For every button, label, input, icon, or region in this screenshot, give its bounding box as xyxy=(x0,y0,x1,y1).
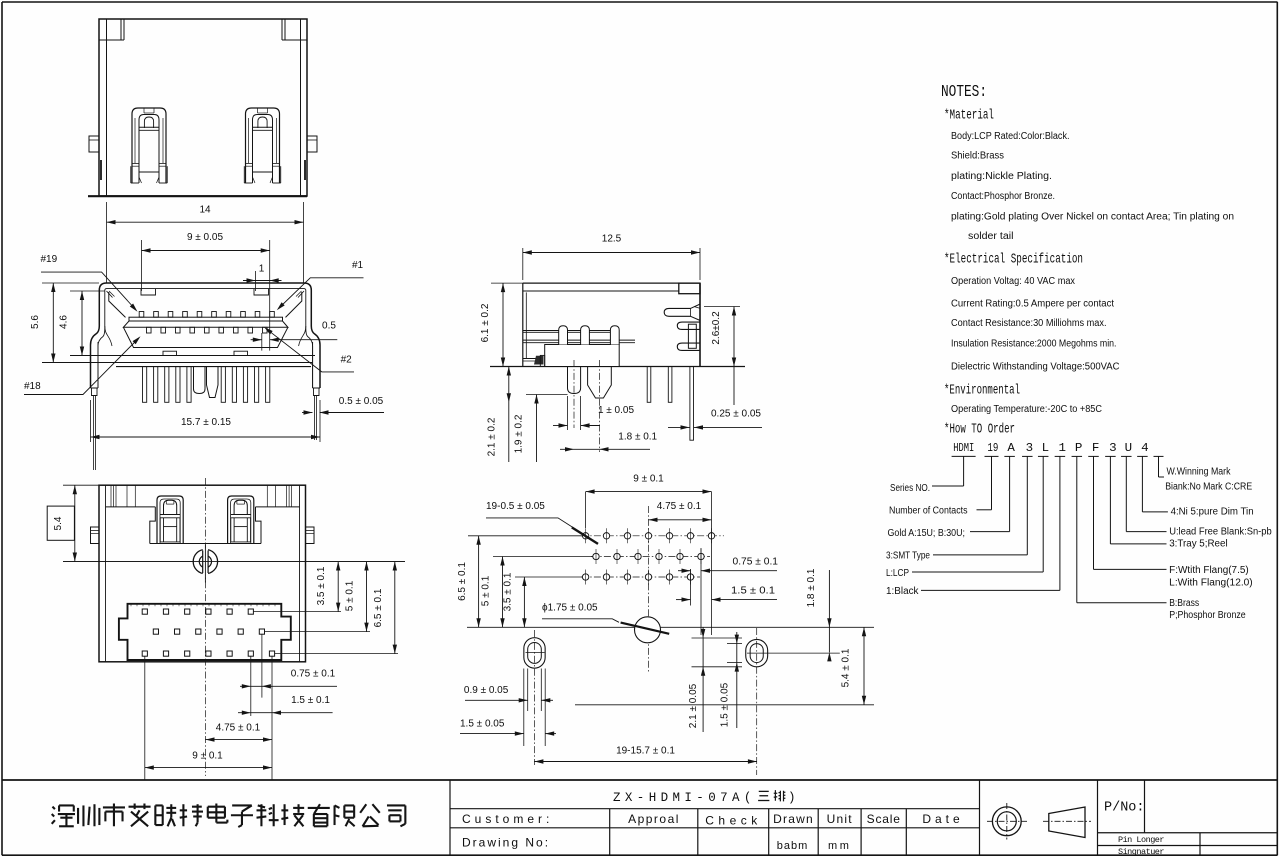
svg-text:L: L xyxy=(1042,442,1050,455)
svg-text:ZX-HDMI-07A(: ZX-HDMI-07A( xyxy=(613,791,756,805)
svg-text:NOTES:: NOTES: xyxy=(941,82,987,101)
svg-text:1 ± 0.05: 1 ± 0.05 xyxy=(598,405,635,416)
svg-text:Approal: Approal xyxy=(628,812,680,826)
svg-text:L:LCP: L:LCP xyxy=(886,568,909,579)
svg-text:Series NO.: Series NO. xyxy=(890,483,930,494)
svg-text:1: 1 xyxy=(259,264,265,275)
svg-text:A: A xyxy=(1007,442,1015,455)
svg-text:1.9 ± 0.2: 1.9 ± 0.2 xyxy=(514,414,525,453)
svg-text:*Environmental: *Environmental xyxy=(944,383,1020,399)
svg-text:2.6±0.2: 2.6±0.2 xyxy=(711,311,722,345)
svg-text:0.75 ± 0.1: 0.75 ± 0.1 xyxy=(291,669,336,680)
svg-text:F: F xyxy=(1092,442,1100,455)
svg-text:Gold A:15U; B:30U;: Gold A:15U; B:30U; xyxy=(888,528,966,539)
svg-text:5 ± 0.1: 5 ± 0.1 xyxy=(481,575,492,606)
svg-text:5.6: 5.6 xyxy=(30,315,41,329)
svg-text:Dielectric Withstanding Voltag: Dielectric Withstanding Voltage:500VAC xyxy=(951,362,1120,373)
svg-text:#2: #2 xyxy=(341,355,353,366)
svg-text:): ) xyxy=(788,791,796,805)
svg-text:Drawing No:: Drawing No: xyxy=(462,836,550,850)
svg-text:6.5 ± 0.1: 6.5 ± 0.1 xyxy=(457,562,468,601)
svg-text:Biank:No Mark C:CRE: Biank:No Mark C:CRE xyxy=(1165,482,1252,493)
svg-text:15.7 ± 0.15: 15.7 ± 0.15 xyxy=(181,417,231,428)
svg-text:2.1 ± 0.2: 2.1 ± 0.2 xyxy=(487,417,498,456)
svg-text:6.1 ± 0.2: 6.1 ± 0.2 xyxy=(480,303,491,342)
svg-text:4: 4 xyxy=(1141,442,1149,455)
svg-text:ϕ1.75 ± 0.05: ϕ1.75 ± 0.05 xyxy=(542,603,598,614)
svg-text:B:Brass: B:Brass xyxy=(1169,598,1199,609)
svg-text:mm: mm xyxy=(828,840,851,852)
svg-text:Shield:Brass: Shield:Brass xyxy=(951,151,1004,162)
svg-text:Check: Check xyxy=(705,814,762,828)
svg-text:P/No:: P/No: xyxy=(1104,801,1145,816)
svg-text:1: 1 xyxy=(1059,442,1067,455)
svg-text:#19: #19 xyxy=(41,254,58,265)
svg-text:U: U xyxy=(1125,442,1133,455)
svg-text:9 ± 0.1: 9 ± 0.1 xyxy=(192,751,223,762)
svg-text:1.8 ± 0.1: 1.8 ± 0.1 xyxy=(806,568,817,607)
svg-text:babm: babm xyxy=(777,840,809,852)
svg-text:L:With Flang(12.0): L:With Flang(12.0) xyxy=(1169,578,1253,589)
svg-text:12.5: 12.5 xyxy=(602,234,622,245)
svg-text:4.75 ± 0.1: 4.75 ± 0.1 xyxy=(657,501,702,512)
svg-text:0.75 ± 0.1: 0.75 ± 0.1 xyxy=(733,557,779,568)
svg-text:Insulation Resistance:2000 Meg: Insulation Resistance:2000 Megohms min. xyxy=(951,339,1117,350)
svg-text:Date: Date xyxy=(922,812,963,826)
svg-text:9 ± 0.1: 9 ± 0.1 xyxy=(633,474,664,485)
svg-text:U:lead Free Blank:Sn-pb: U:lead Free Blank:Sn-pb xyxy=(1169,527,1272,538)
svg-text:4.75 ± 0.1: 4.75 ± 0.1 xyxy=(216,723,261,734)
svg-text:3.5 ± 0.1: 3.5 ± 0.1 xyxy=(316,566,327,605)
svg-text:Customer:: Customer: xyxy=(462,812,553,826)
svg-text:HDMI: HDMI xyxy=(953,442,974,455)
svg-text:plating:Gold plating Over Nick: plating:Gold plating Over Nickel on cont… xyxy=(951,212,1234,223)
svg-text:0.25 ± 0.05: 0.25 ± 0.05 xyxy=(711,409,761,420)
svg-text:19-0.5 ± 0.05: 19-0.5 ± 0.05 xyxy=(486,501,545,512)
svg-text:1.5 ± 0.05: 1.5 ± 0.05 xyxy=(460,719,505,730)
svg-text:3: 3 xyxy=(1109,442,1117,455)
svg-text:19: 19 xyxy=(987,442,998,455)
svg-text:Unit: Unit xyxy=(827,812,853,826)
svg-text:4:Ni 5:pure Dim Tin: 4:Ni 5:pure Dim Tin xyxy=(1171,507,1254,518)
svg-text:Singnatuer: Singnatuer xyxy=(1118,847,1164,856)
svg-text:0.5: 0.5 xyxy=(322,321,336,332)
svg-text:*Material: *Material xyxy=(944,108,994,124)
svg-text:P;Phosphor Bronze: P;Phosphor Bronze xyxy=(1169,610,1246,621)
svg-text:3: 3 xyxy=(1026,442,1034,455)
svg-text:Body:LCP Rated:Color:Black.: Body:LCP Rated:Color:Black. xyxy=(951,131,1070,142)
svg-text:Pin Longer: Pin Longer xyxy=(1118,835,1164,845)
svg-text:3.5 ± 0.1: 3.5 ± 0.1 xyxy=(503,572,514,611)
svg-text:F:Wtith Flang(7.5): F:Wtith Flang(7.5) xyxy=(1169,565,1249,576)
svg-text:2.1 ± 0.05: 2.1 ± 0.05 xyxy=(688,683,699,728)
svg-text:1:Black: 1:Black xyxy=(886,586,919,597)
svg-text:Operating Temperature:-20C to: Operating Temperature:-20C to +85C xyxy=(951,404,1102,415)
svg-text:P: P xyxy=(1075,442,1083,455)
svg-text:0.9 ± 0.05: 0.9 ± 0.05 xyxy=(464,685,509,696)
svg-text:Operation Voltag: 40 VAC max: Operation Voltag: 40 VAC max xyxy=(951,276,1075,287)
svg-text:#1: #1 xyxy=(352,260,364,271)
svg-text:1.8 ± 0.1: 1.8 ± 0.1 xyxy=(618,432,657,443)
svg-text:Scale: Scale xyxy=(867,812,901,826)
svg-text:plating:Nickle Plating.: plating:Nickle Plating. xyxy=(951,171,1052,182)
svg-text:19-15.7 ± 0.1: 19-15.7 ± 0.1 xyxy=(616,746,675,757)
svg-text:*Electrical Specification: *Electrical Specification xyxy=(944,252,1083,268)
svg-text:Number of Contacts: Number of Contacts xyxy=(889,506,968,517)
svg-text:#18: #18 xyxy=(24,381,41,392)
svg-text:14: 14 xyxy=(199,205,211,216)
svg-text:*How TO Order: *How TO Order xyxy=(944,422,1015,438)
svg-text:Drawn: Drawn xyxy=(773,812,814,826)
svg-text:Contact Resistance:30 Milliohm: Contact Resistance:30 Milliohms max. xyxy=(951,318,1107,329)
svg-text:3:SMT Type: 3:SMT Type xyxy=(886,551,930,562)
svg-text:9 ± 0.05: 9 ± 0.05 xyxy=(187,232,224,243)
svg-text:Current Rating:0.5 Ampere per: Current Rating:0.5 Ampere per contact xyxy=(951,299,1114,310)
svg-text:Contact:Phosphor Bronze.: Contact:Phosphor Bronze. xyxy=(951,191,1055,202)
svg-text:W.Winning Mark: W.Winning Mark xyxy=(1167,467,1231,478)
svg-text:1.5 ± 0.05: 1.5 ± 0.05 xyxy=(720,682,731,727)
svg-text:5.4: 5.4 xyxy=(53,516,64,530)
svg-text:5.4 ± 0.1: 5.4 ± 0.1 xyxy=(841,648,852,687)
svg-text:1.5 ± 0.1: 1.5 ± 0.1 xyxy=(731,586,775,597)
svg-text:0.5 ± 0.05: 0.5 ± 0.05 xyxy=(339,396,384,407)
svg-text:1.5 ± 0.1: 1.5 ± 0.1 xyxy=(291,695,330,706)
svg-text:3:Tray 5;Reel: 3:Tray 5;Reel xyxy=(1169,539,1227,550)
svg-text:4.6: 4.6 xyxy=(59,315,70,329)
svg-text:solder tail: solder tail xyxy=(968,231,1014,242)
svg-text:5 ± 0.1: 5 ± 0.1 xyxy=(345,580,356,611)
svg-text:6.5 ± 0.1: 6.5 ± 0.1 xyxy=(373,588,384,627)
